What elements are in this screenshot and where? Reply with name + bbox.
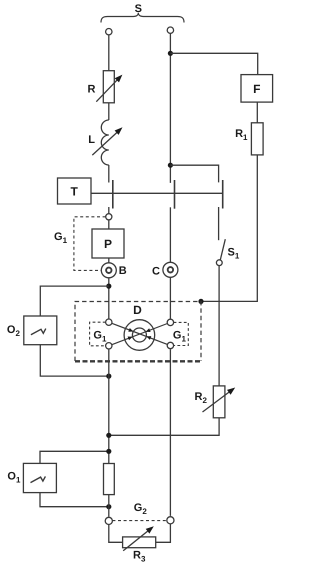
wire R3 to G2 right	[156, 524, 171, 542]
box O2	[24, 316, 57, 345]
inductor L	[101, 120, 108, 165]
junction dot O1 bottom	[106, 504, 111, 509]
junction dot O1 top	[106, 449, 111, 454]
plug bar middle	[174, 180, 176, 209]
brush diagonal lt-rb	[112, 323, 168, 344]
motor terminal left-bottom	[106, 343, 112, 349]
G2 right terminal	[167, 517, 174, 524]
dashed box D bottom (thick)	[75, 360, 201, 362]
wire plug to terminal above P	[108, 207, 110, 214]
svg-text:T: T	[71, 184, 79, 198]
brace S	[101, 13, 184, 23]
svg-text:O2: O2	[7, 324, 21, 338]
junction dot O2 top	[106, 284, 111, 289]
motor commutator inner circle	[132, 328, 146, 342]
wire O2 top	[40, 286, 109, 316]
wire G2 left down to R3	[109, 525, 123, 543]
wire O2 bottom	[40, 345, 109, 376]
svg-text:F: F	[253, 82, 260, 96]
box P	[92, 229, 124, 258]
motor terminal left-top	[106, 319, 112, 325]
motor outer circle	[124, 320, 155, 351]
junction dot R2 branch	[106, 433, 111, 438]
svg-text:R2: R2	[195, 391, 208, 405]
wire R to L	[108, 103, 110, 120]
resistor R1	[251, 123, 263, 155]
svg-text:G2: G2	[134, 502, 148, 516]
wire B down	[108, 278, 110, 319]
svg-text:C: C	[152, 265, 160, 277]
O2 waveform symbol	[31, 329, 46, 335]
svg-text:D: D	[133, 303, 142, 317]
junction dot O2 bottom	[106, 374, 111, 379]
wire right terminal down (middle column)	[169, 33, 171, 183]
O1 waveform symbol	[31, 476, 46, 482]
terminal left (top)	[106, 29, 112, 35]
wire left terminal to R	[108, 35, 110, 71]
wire terminal to P	[108, 220, 110, 229]
wire P to B	[108, 258, 110, 263]
dashed box G1 right (brush)	[174, 322, 189, 345]
switch S1 lever	[220, 239, 225, 260]
wire motor right-bottom down	[169, 349, 171, 516]
bus wire from T	[90, 192, 223, 194]
dashed box D	[75, 302, 201, 362]
junction to F	[168, 51, 173, 56]
svg-text:R3: R3	[133, 549, 146, 563]
terminal B	[101, 263, 116, 278]
svg-text:B: B	[119, 265, 127, 277]
plug bar left	[112, 180, 114, 209]
svg-text:R: R	[87, 84, 95, 96]
terminal above P	[106, 214, 112, 220]
svg-text:G1: G1	[173, 330, 187, 344]
resistor R3	[123, 537, 156, 548]
svg-text:G1: G1	[93, 329, 107, 343]
dashed box G1 (left P enclosure)	[74, 217, 106, 271]
terminal right (top)	[167, 27, 173, 33]
box F	[241, 75, 273, 103]
motor terminal right-top	[167, 319, 173, 325]
wire R2 bottom to left column	[109, 418, 219, 436]
wire S1 to R2	[218, 266, 220, 386]
G2 left terminal	[105, 517, 112, 524]
wire to F	[170, 53, 257, 74]
junction dot D corner	[198, 299, 203, 304]
wire L to plug gap	[108, 165, 110, 183]
junction dot elbow	[168, 163, 173, 168]
wire to G2 left circle	[108, 495, 110, 517]
switch S1 pivot	[216, 260, 222, 266]
brush diagonal lb-rt	[112, 324, 168, 345]
box T	[58, 178, 92, 204]
svg-text:P: P	[104, 237, 112, 251]
wire elbow to right plug	[170, 165, 218, 182]
svg-text:G1: G1	[54, 231, 68, 245]
svg-text:O1: O1	[7, 471, 21, 485]
wire F to R1	[256, 102, 258, 123]
resistor (bottom centre)	[104, 464, 115, 495]
wire C down to motor	[169, 277, 171, 319]
wire R1 down to D corner	[201, 155, 257, 302]
svg-text:R1: R1	[235, 128, 248, 142]
resistor R	[103, 71, 114, 103]
motor terminal right-bottom	[167, 342, 173, 348]
plug bar right	[222, 180, 224, 209]
wire motor left-bottom down	[108, 349, 110, 463]
box O1	[23, 463, 56, 492]
wire O1 bottom	[40, 493, 109, 507]
svg-text:S1: S1	[228, 247, 240, 261]
dashed box G1 left (brush)	[90, 322, 106, 346]
resistor R2	[213, 386, 225, 418]
dashed G2 link	[112, 520, 166, 522]
wire middle plug to C	[169, 207, 171, 262]
svg-text:L: L	[88, 134, 95, 146]
terminal C	[163, 262, 178, 277]
wire O1 top	[40, 451, 109, 463]
wire right plug down to S1	[218, 207, 220, 240]
